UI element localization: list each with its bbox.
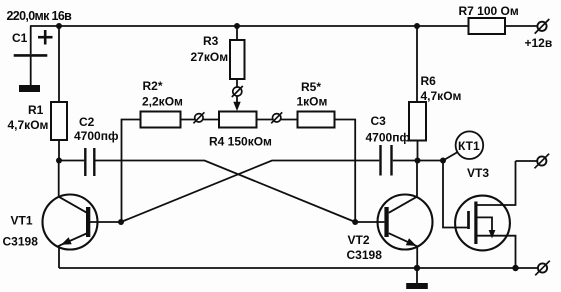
svg-text:R7 100 Ом: R7 100 Ом (459, 4, 519, 18)
svg-text:C3198: C3198 (3, 235, 39, 249)
svg-text:C1: C1 (12, 31, 28, 45)
svg-text:VT2: VT2 (348, 233, 370, 247)
svg-text:4,7кОм: 4,7кОм (8, 118, 49, 132)
svg-text:220,0мк 16в: 220,0мк 16в (7, 9, 73, 23)
svg-text:VT3: VT3 (467, 166, 489, 180)
svg-text:R6: R6 (421, 74, 437, 88)
svg-text:1кОм: 1кОм (297, 95, 328, 109)
svg-text:4700пф: 4700пф (366, 131, 411, 145)
svg-text:R3: R3 (203, 34, 219, 48)
svg-text:2,2кОм: 2,2кОм (142, 95, 183, 109)
svg-text:R2*: R2* (143, 79, 163, 93)
svg-text:27кОм: 27кОм (191, 50, 229, 64)
svg-text:C3198: C3198 (347, 248, 383, 262)
svg-text:КТ1: КТ1 (458, 139, 480, 153)
svg-text:4700пф: 4700пф (74, 129, 119, 143)
svg-text:R1: R1 (28, 103, 44, 117)
svg-text:C3: C3 (371, 114, 387, 128)
svg-text:C2: C2 (79, 115, 95, 129)
svg-text:4,7кОм: 4,7кОм (421, 89, 462, 103)
svg-text:+12в: +12в (525, 36, 553, 50)
svg-text:VT1: VT1 (11, 214, 33, 228)
svg-text:R4 150кОм: R4 150кОм (209, 135, 272, 149)
svg-text:R5*: R5* (301, 80, 321, 94)
